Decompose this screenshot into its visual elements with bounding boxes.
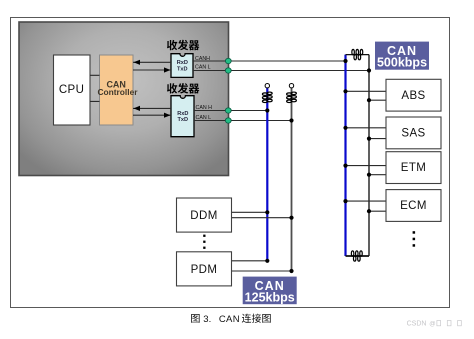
svg-text:3.: 3. — [203, 314, 211, 325]
svg-text:CANH: CANH — [195, 56, 210, 62]
svg-text:PDM: PDM — [191, 264, 218, 276]
svg-text:TxD: TxD — [177, 67, 188, 73]
svg-text:500kbps: 500kbps — [377, 56, 427, 70]
svg-text:Controller: Controller — [97, 87, 138, 97]
svg-text:DDM: DDM — [190, 210, 217, 222]
svg-text:RxD: RxD — [177, 60, 188, 66]
svg-text:CSDN: CSDN — [407, 321, 427, 328]
svg-text:CAN L: CAN L — [196, 115, 212, 121]
svg-text:CAN L: CAN L — [195, 65, 211, 71]
svg-text:ETM: ETM — [401, 162, 426, 174]
svg-text:CAN H: CAN H — [196, 105, 213, 111]
svg-text:CAN: CAN — [219, 314, 240, 325]
svg-text:@: @ — [429, 321, 435, 328]
svg-text:TxD: TxD — [178, 117, 189, 123]
svg-text:CPU: CPU — [59, 84, 84, 96]
svg-text:SAS: SAS — [401, 128, 425, 140]
svg-text:ECM: ECM — [400, 200, 427, 212]
svg-text:125kbps: 125kbps — [245, 290, 295, 304]
svg-text:ABS: ABS — [401, 90, 425, 102]
